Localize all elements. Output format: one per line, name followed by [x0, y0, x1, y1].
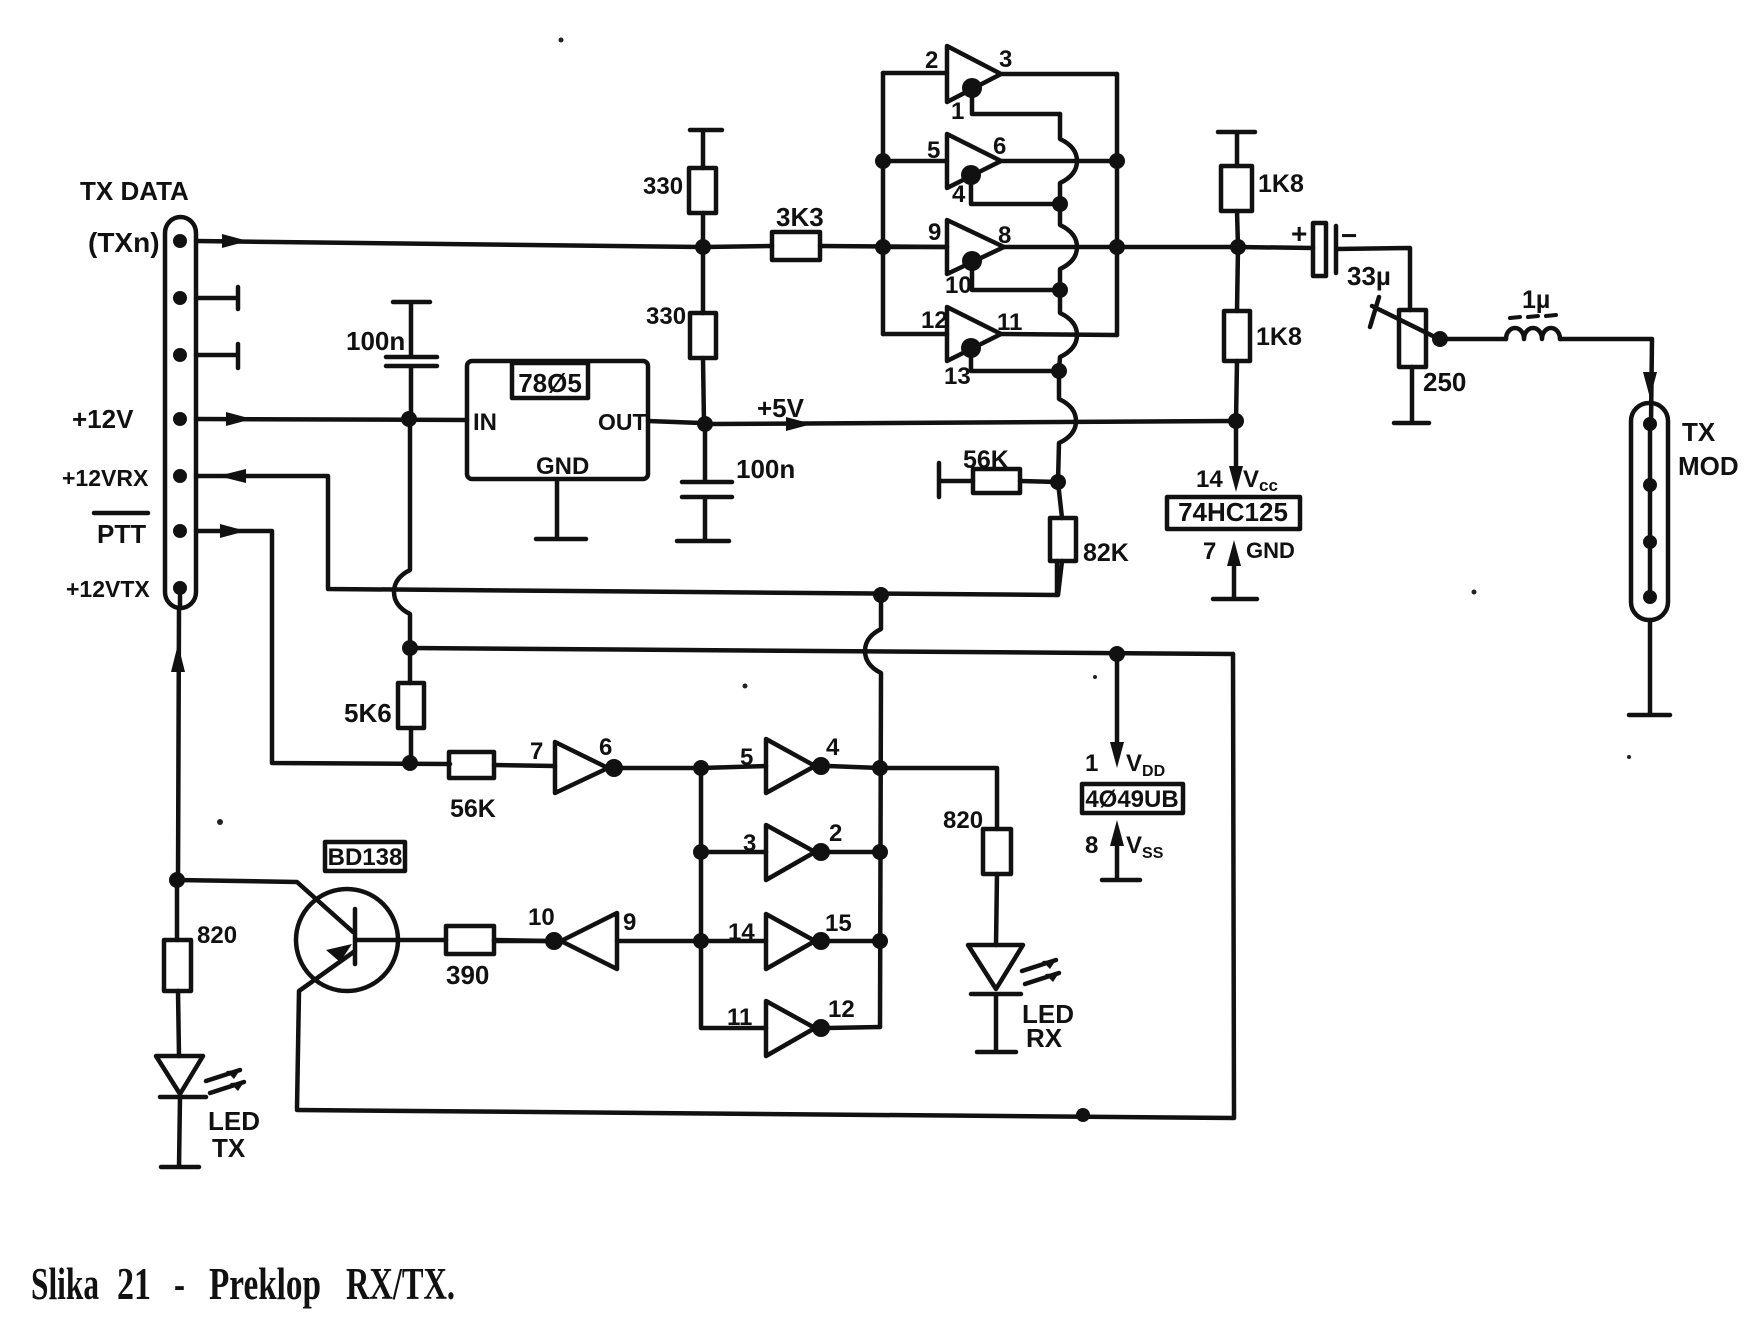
- svg-text:13: 13: [944, 363, 971, 390]
- svg-text:3: 3: [999, 46, 1012, 73]
- svg-text:14: 14: [1196, 466, 1223, 493]
- svg-text:MOD: MOD: [1678, 451, 1739, 481]
- svg-text:11: 11: [997, 309, 1022, 336]
- svg-text:15: 15: [825, 910, 852, 937]
- svg-text:+12VTX: +12VTX: [66, 576, 150, 602]
- svg-text:7: 7: [530, 738, 543, 765]
- svg-text:12: 12: [921, 307, 948, 334]
- svg-text:9: 9: [623, 909, 636, 936]
- svg-text:14: 14: [728, 919, 755, 946]
- svg-text:330: 330: [643, 173, 683, 200]
- svg-text:12: 12: [828, 996, 855, 1023]
- svg-text:33µ: 33µ: [1347, 261, 1391, 291]
- svg-text:PTT: PTT: [97, 519, 146, 549]
- svg-text:1K8: 1K8: [1258, 170, 1304, 198]
- svg-text:OUT: OUT: [598, 409, 647, 435]
- svg-text:2: 2: [829, 820, 842, 847]
- svg-text:56K: 56K: [450, 795, 496, 823]
- svg-text:3K3: 3K3: [776, 202, 824, 232]
- svg-text:-: -: [174, 1259, 185, 1309]
- svg-text:330: 330: [646, 303, 686, 330]
- svg-text:1K8: 1K8: [1256, 323, 1302, 351]
- svg-text:TX: TX: [1682, 417, 1716, 447]
- svg-text:+5V: +5V: [757, 393, 805, 423]
- svg-text:1: 1: [951, 98, 964, 125]
- svg-text:82K: 82K: [1083, 539, 1129, 567]
- svg-text:Slika: Slika: [31, 1259, 99, 1309]
- svg-text:820: 820: [197, 922, 237, 949]
- svg-text:8: 8: [998, 222, 1011, 249]
- svg-text:IN: IN: [473, 409, 497, 436]
- svg-text:6: 6: [599, 734, 612, 761]
- svg-text:11: 11: [727, 1004, 752, 1031]
- svg-text:RX/TX.: RX/TX.: [346, 1259, 455, 1309]
- svg-text:+: +: [1291, 218, 1307, 249]
- svg-text:1µ: 1µ: [1522, 286, 1550, 314]
- svg-text:56K: 56K: [963, 446, 1009, 474]
- svg-text:10: 10: [528, 904, 555, 931]
- svg-text:+12V: +12V: [72, 404, 134, 434]
- svg-text:9: 9: [928, 219, 941, 246]
- svg-text:100n: 100n: [736, 454, 795, 484]
- svg-text:250: 250: [1423, 367, 1466, 397]
- svg-text:74HC125: 74HC125: [1178, 497, 1288, 527]
- svg-text:RX: RX: [1026, 1023, 1063, 1053]
- svg-text:GND: GND: [536, 453, 589, 480]
- svg-text:+12VRX: +12VRX: [62, 465, 149, 491]
- svg-text:TX DATA: TX DATA: [80, 176, 189, 206]
- svg-text:4Ø49UB: 4Ø49UB: [1085, 786, 1178, 813]
- svg-text:7: 7: [1203, 538, 1216, 565]
- svg-text:5: 5: [740, 744, 753, 771]
- svg-text:LED: LED: [208, 1106, 260, 1136]
- svg-text:1: 1: [1085, 750, 1098, 777]
- svg-text:5K6: 5K6: [344, 698, 392, 728]
- svg-text:3: 3: [743, 830, 756, 857]
- svg-text:820: 820: [943, 807, 983, 834]
- svg-text:390: 390: [446, 960, 489, 990]
- svg-text:TX: TX: [212, 1133, 246, 1163]
- svg-text:6: 6: [993, 133, 1006, 160]
- svg-text:4: 4: [952, 181, 966, 208]
- svg-text:−: −: [1341, 220, 1357, 251]
- svg-text:78Ø5: 78Ø5: [518, 368, 582, 398]
- svg-text:8: 8: [1085, 832, 1098, 859]
- svg-text:4: 4: [826, 734, 840, 761]
- svg-text:5: 5: [927, 137, 940, 164]
- svg-text:10: 10: [945, 272, 972, 299]
- svg-text:21: 21: [117, 1259, 151, 1309]
- svg-text:100n: 100n: [346, 326, 405, 356]
- svg-text:(TXn): (TXn): [88, 227, 160, 258]
- svg-text:Preklop: Preklop: [209, 1259, 321, 1309]
- svg-text:BD138: BD138: [328, 844, 403, 871]
- svg-text:GND: GND: [1246, 538, 1295, 563]
- svg-text:2: 2: [925, 47, 938, 74]
